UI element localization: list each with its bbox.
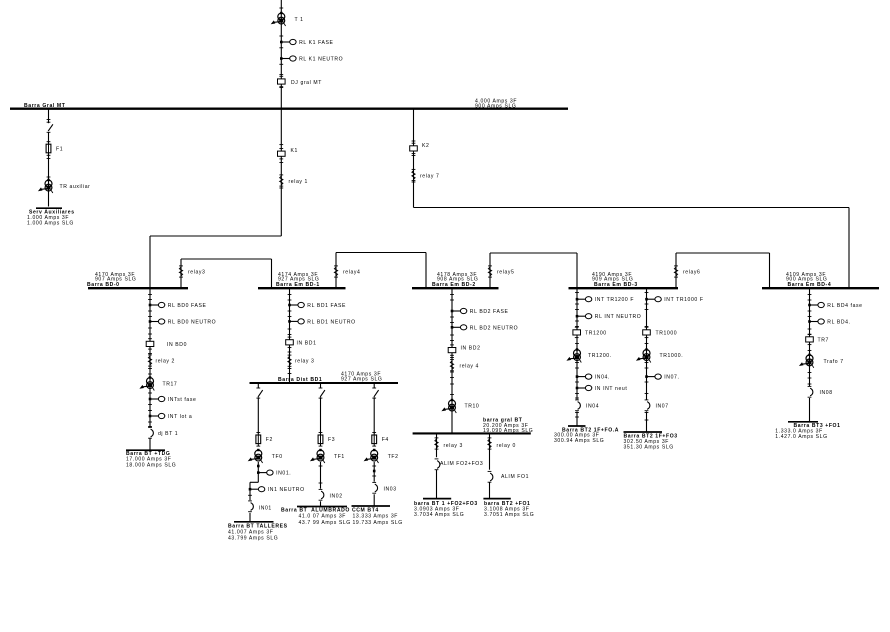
svg-text:TF1: TF1 [334, 454, 345, 460]
relay INT TR1000 F [645, 297, 703, 304]
bus Barra BT2 1F+FO.A [554, 426, 619, 444]
breaker DJ gral MT [278, 76, 322, 86]
transformer TR1000 [636, 348, 683, 362]
relay 3 feeder ALIM FO2 FO3 [435, 433, 484, 498]
svg-text:IN1 NEUTRO: IN1 NEUTRO [268, 487, 305, 493]
bus Barra Em BD-4 [762, 272, 879, 288]
feeder fuse F4 [364, 383, 399, 463]
bus Barra BT TALLERES [228, 522, 288, 542]
relay INT TR1200 F [576, 297, 634, 304]
svg-text:3.7034 Amps SLG: 3.7034 Amps SLG [414, 512, 464, 518]
svg-text:INTst fase: INTst fase [168, 397, 197, 403]
svg-text:TR1200.: TR1200. [588, 353, 612, 359]
relay RL K1 FASE [280, 39, 334, 46]
transformer TR10 [441, 399, 479, 413]
svg-text:900 Amps SLG: 900 Amps SLG [475, 104, 516, 110]
svg-text:relay 4: relay 4 [460, 364, 480, 370]
svg-text:IN INT neut: IN INT neut [595, 386, 628, 392]
svg-text:relay3: relay3 [188, 270, 205, 276]
svg-text:RL BD2 NEUTRO: RL BD2 NEUTRO [470, 325, 518, 331]
breaker IN03 [372, 462, 396, 506]
svg-text:TF0: TF0 [272, 454, 283, 460]
svg-text:Barra Em BD-4: Barra Em BD-4 [788, 282, 832, 288]
svg-text:INT TR1200 F: INT TR1200 F [595, 297, 634, 303]
wire aux feeder [47, 109, 51, 207]
breaker IN07 [645, 400, 669, 411]
wire BD-0 column [148, 288, 152, 450]
breaker IN01 [248, 501, 272, 522]
breaker K1 [278, 148, 298, 159]
wire BD-3 right column [645, 288, 649, 432]
svg-text:IN03: IN03 [384, 486, 397, 492]
svg-text:relay 2: relay 2 [156, 359, 176, 365]
relay IN01 tap [257, 462, 291, 482]
bus Barra BT2 1F+FO3 [624, 432, 678, 450]
svg-text:RL BD4 fase: RL BD4 fase [827, 303, 862, 309]
svg-text:1.427.0 Amps SLG: 1.427.0 Amps SLG [775, 434, 827, 440]
relay IN07 tap [645, 374, 679, 381]
breaker K2 [410, 143, 430, 154]
relay RL BD4 fase [808, 302, 862, 309]
svg-text:19.733 Amps SLG: 19.733 Amps SLG [353, 520, 403, 526]
svg-text:F2: F2 [266, 437, 273, 443]
svg-text:INT TR1000 F: INT TR1000 F [664, 297, 703, 303]
svg-text:41.0 07 Amps 3F: 41.0 07 Amps 3F [299, 514, 347, 520]
transformer TR17 [139, 376, 177, 390]
relay 4 [450, 360, 479, 371]
relay 7 [412, 169, 440, 180]
wire BD-4 column [808, 288, 812, 421]
relay RL BD0 FASE [149, 302, 207, 309]
fuse F1 [46, 142, 63, 156]
tie BD-0 to BD-1 relay3 [179, 259, 271, 288]
svg-text:IN07: IN07 [656, 404, 669, 410]
tie BD-3 to BD-4 relay6 [674, 253, 769, 288]
svg-text:Barra Em BD-3: Barra Em BD-3 [594, 282, 638, 288]
svg-text:IN01.: IN01. [276, 471, 291, 477]
svg-text:relay 1: relay 1 [289, 179, 309, 185]
bus Barra Em BD-1 [258, 272, 346, 288]
transformer TR auxiliar [38, 179, 91, 193]
svg-text:ALIM FO1: ALIM FO1 [501, 474, 529, 480]
bus barra BT 1 [414, 499, 478, 518]
relay RL BD2 NEUTRO [451, 325, 518, 332]
wire BD-1 column [288, 288, 292, 383]
svg-text:RL K1 FASE: RL K1 FASE [299, 40, 333, 46]
svg-text:F1: F1 [56, 146, 63, 152]
svg-text:ALIM FO2+FO3: ALIM FO2+FO3 [440, 461, 483, 467]
disconnect switch aux [47, 122, 53, 132]
feeder fuse F3 [310, 383, 345, 463]
relay RL BD4 [808, 319, 850, 326]
tie BD-1 to BD-2 relay4 [334, 253, 426, 289]
svg-text:DJ gral MT: DJ gral MT [291, 80, 322, 86]
breaker IN BD1 [286, 337, 317, 347]
svg-text:T 1: T 1 [295, 17, 304, 23]
svg-text:relay 3: relay 3 [444, 443, 464, 449]
svg-text:K1: K1 [291, 148, 298, 154]
svg-text:TR10: TR10 [465, 403, 480, 409]
bus Barra Em BD-2 [412, 272, 499, 288]
svg-text:RL BD1 NEUTRO: RL BD1 NEUTRO [307, 319, 355, 325]
svg-text:TR1000: TR1000 [656, 331, 678, 337]
svg-text:13.333 Amps 3F: 13.333 Amps 3F [353, 514, 399, 520]
bus barra gral BT [413, 417, 534, 434]
breaker IN BD2 [448, 345, 480, 355]
feeder fuse F2 [248, 383, 283, 463]
svg-text:927 Amps SLG: 927 Amps SLG [341, 377, 382, 383]
svg-text:RL BD0 FASE: RL BD0 FASE [168, 303, 207, 309]
svg-text:Barra Em BD-2: Barra Em BD-2 [432, 282, 476, 288]
svg-text:IN07.: IN07. [664, 375, 679, 381]
svg-text:Barra Dist BD1: Barra Dist BD1 [278, 377, 322, 383]
svg-text:TF2: TF2 [388, 454, 399, 460]
svg-text:Barra Em BD-1: Barra Em BD-1 [276, 282, 320, 288]
wire K2 drop [412, 109, 416, 208]
tie BD-2 to BD-3 relay5 [488, 253, 577, 288]
svg-text:19.090 Amps SLG: 19.090 Amps SLG [483, 428, 533, 434]
transformer Trafo 7 [799, 354, 844, 368]
relay 0 feeder ALIM FO1 [488, 433, 529, 498]
wire to BD-4 [414, 208, 850, 289]
wire K1 drop [279, 109, 283, 236]
svg-text:relay6: relay6 [683, 270, 700, 276]
svg-text:TR1200: TR1200 [585, 331, 607, 337]
svg-text:TR auxiliar: TR auxiliar [60, 184, 91, 190]
wire incoming feeder [279, 0, 283, 109]
svg-text:IN04.: IN04. [595, 375, 610, 381]
bus Barra Dist BD1 [250, 371, 399, 383]
svg-text:RL INT NEUTRO: RL INT NEUTRO [595, 314, 642, 320]
svg-text:K2: K2 [422, 143, 429, 149]
transformer TR1200 [566, 348, 611, 362]
svg-text:RL BD0 NEUTRO: RL BD0 NEUTRO [168, 320, 216, 326]
breaker IN04 [575, 400, 599, 411]
transformer T1 [271, 12, 304, 26]
wire BD-2 column [450, 288, 454, 433]
svg-text:IN02: IN02 [330, 493, 343, 499]
relay IN1 NEUTRO [249, 487, 305, 494]
relay RL INT NEUTRO [576, 314, 642, 321]
svg-text:18.000 Amps SLG: 18.000 Amps SLG [126, 462, 176, 468]
svg-text:IN BD0: IN BD0 [167, 342, 187, 348]
breaker TR7 [806, 334, 829, 344]
svg-text:RL BD1 FASE: RL BD1 FASE [307, 303, 346, 309]
breaker TR1200 [573, 327, 607, 337]
svg-text:TR17: TR17 [163, 382, 178, 388]
relay RL BD1 NEUTRO [288, 319, 355, 326]
svg-text:dj BT 1: dj BT 1 [158, 431, 178, 437]
svg-text:INT lot a: INT lot a [168, 414, 193, 420]
svg-text:F3: F3 [328, 437, 335, 443]
relay 2 [148, 355, 175, 366]
breaker IN02 [319, 462, 343, 506]
svg-text:IN01: IN01 [259, 505, 272, 511]
bus Barra BT +TDG [126, 450, 176, 468]
svg-text:300.94 Amps SLG: 300.94 Amps SLG [554, 438, 604, 444]
relay RL BD0 NEUTRO [149, 319, 216, 326]
relay INT lot a [149, 413, 193, 420]
bus Barra BT3 +FO1 [775, 422, 840, 440]
wire to BD-0 [150, 236, 281, 288]
svg-text:IN BD1: IN BD1 [297, 341, 317, 347]
svg-text:1.000 Amps SLG: 1.000 Amps SLG [27, 220, 74, 226]
svg-text:RL K1 NEUTRO: RL K1 NEUTRO [299, 57, 343, 63]
svg-text:RL BD2 FASE: RL BD2 FASE [470, 309, 509, 315]
breaker dj BT 1 [148, 427, 178, 438]
bus Barra BD-0 [87, 272, 188, 288]
svg-text:F4: F4 [382, 437, 389, 443]
bus Barra BT ALUMBRADO [281, 507, 351, 526]
svg-text:relay 0: relay 0 [497, 443, 517, 449]
svg-text:Barra BD-0: Barra BD-0 [87, 282, 120, 288]
breaker IN08 [808, 386, 833, 397]
svg-text:TR1000.: TR1000. [660, 353, 684, 359]
breaker TR1000 [643, 327, 678, 337]
bus CCM BT4 [352, 506, 403, 526]
relay INTst fase [149, 396, 197, 403]
svg-text:Barra Gral MT: Barra Gral MT [24, 103, 66, 109]
svg-text:TR7: TR7 [818, 338, 829, 344]
relay 3 [288, 355, 315, 366]
svg-text:relay 7: relay 7 [420, 174, 440, 180]
wire jog left feeder [248, 482, 258, 500]
svg-text:IN BD2: IN BD2 [461, 346, 481, 352]
breaker IN BD0 [146, 339, 187, 349]
bus barra BT2 [483, 499, 534, 518]
svg-text:Trafo 7: Trafo 7 [824, 359, 844, 365]
svg-text:3.7051 Amps SLG: 3.7051 Amps SLG [484, 512, 534, 518]
svg-text:relay 3: relay 3 [295, 359, 315, 365]
svg-text:IN04: IN04 [586, 404, 599, 410]
svg-text:RL BD4.: RL BD4. [827, 320, 850, 326]
svg-text:relay4: relay4 [343, 270, 360, 276]
svg-text:relay5: relay5 [497, 270, 514, 276]
relay RL BD1 FASE [288, 302, 346, 309]
svg-text:43.7 99 Amps SLG: 43.7 99 Amps SLG [299, 520, 351, 526]
bus Serv Auxiliares [27, 208, 75, 226]
relay IN INT neut [576, 385, 628, 392]
relay 1 [279, 175, 308, 186]
relay RL K1 NEUTRO [280, 56, 343, 63]
svg-text:351.30 Amps SLG: 351.30 Amps SLG [624, 444, 674, 450]
svg-text:43.799 Amps SLG: 43.799 Amps SLG [228, 535, 278, 541]
svg-text:IN08: IN08 [820, 390, 833, 396]
wire BD-3 left column [575, 288, 579, 426]
relay RL BD2 FASE [451, 308, 509, 315]
bus Barra Em BD-3 [569, 272, 679, 288]
label main bus rating [475, 98, 517, 109]
bus Barra Gral MT [10, 103, 568, 109]
relay IN04 tap [576, 374, 610, 381]
